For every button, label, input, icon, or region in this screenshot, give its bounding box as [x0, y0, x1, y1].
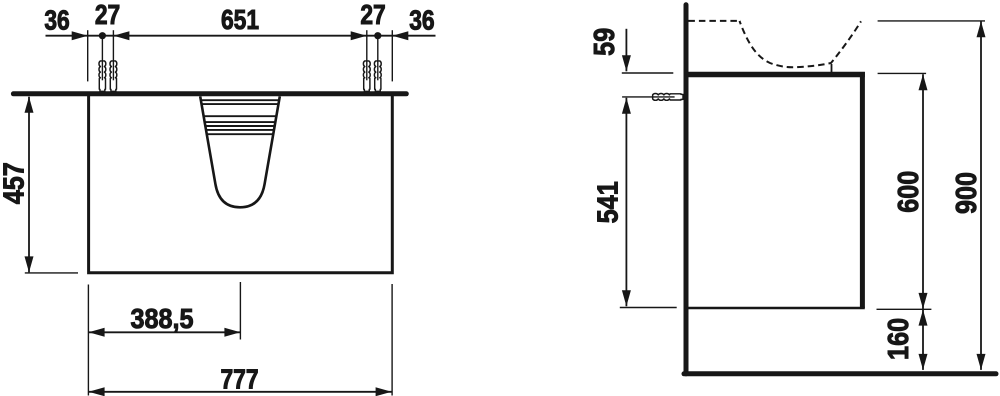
- arrow 651 left: [113, 31, 129, 40]
- dimension line 600: [922, 74, 924, 309]
- wall (side view): [684, 5, 689, 374]
- arrow 457 bottom: [25, 256, 34, 272]
- dimension line 541: [625, 98, 627, 307]
- dimension line 457: [28, 97, 30, 273]
- top dimension line: [46, 35, 436, 37]
- svg-text:651: 651: [221, 5, 259, 35]
- cabinet front panel: [89, 96, 393, 273]
- svg-text:36: 36: [409, 5, 434, 35]
- wall plug D5 axis: [622, 96, 675, 98]
- svg-text:541: 541: [591, 181, 624, 223]
- drill axis dowel 1: [101, 36, 103, 81]
- extension line basin centre: [239, 282, 241, 340]
- wall plug D5 (side view): [653, 93, 683, 100]
- washbasin cutout (front view): [200, 96, 280, 207]
- dimension line 900: [980, 21, 982, 370]
- wall plug D1: [99, 61, 106, 91]
- extension line cabinet right edge: [391, 30, 393, 81]
- drill axis dowel 3: [366, 30, 368, 80]
- wall plug D2: [110, 61, 117, 91]
- svg-text:777: 777: [220, 364, 258, 394]
- dimension line 777: [89, 391, 392, 393]
- extension line cabinet bottom left: [25, 272, 78, 274]
- wall plug D4: [374, 61, 381, 91]
- svg-text:900: 900: [949, 172, 982, 214]
- arrow 541 top: [622, 98, 631, 114]
- arrow 600 top: [919, 74, 928, 90]
- arrow 388,5 right: [224, 328, 240, 337]
- drain mark: [831, 64, 833, 72]
- extension line cabinet bottom (side view, left): [620, 307, 677, 309]
- svg-text:388,5: 388,5: [130, 303, 193, 335]
- dimension line 388,5: [89, 331, 241, 333]
- extension line cabinet bottom right: [877, 308, 932, 310]
- extension line cabinet top left: [622, 72, 674, 74]
- svg-text:27: 27: [95, 0, 120, 30]
- arrow 160 top: [919, 310, 928, 326]
- svg-text:600: 600: [891, 171, 924, 213]
- washbasin profile dashed: [740, 21, 862, 67]
- dimension line 160: [922, 310, 924, 370]
- extension line left lower: [87, 285, 89, 396]
- drill axis dowel 4: [377, 36, 379, 81]
- arrow 59 bottom: [622, 55, 631, 71]
- arrow 36 left: [72, 31, 88, 40]
- dimension line 59: [625, 29, 627, 72]
- arrow 777 left: [89, 387, 105, 396]
- svg-text:59: 59: [587, 28, 620, 56]
- arrow 541 bottom: [622, 290, 631, 306]
- countertop (front view): [13, 91, 406, 96]
- arrow 900 bottom: [977, 354, 986, 370]
- arrow 457 top: [25, 97, 34, 113]
- reference dot right: [374, 32, 381, 39]
- cabinet side: front edge: [860, 72, 865, 308]
- extension line cabinet left edge: [87, 30, 89, 81]
- svg-text:36: 36: [44, 5, 69, 35]
- svg-text:160: 160: [882, 318, 915, 360]
- extension line rim right: [878, 20, 985, 22]
- drill axis dowel 2: [112, 30, 114, 80]
- floor: [684, 371, 996, 376]
- reference dot left: [99, 32, 106, 39]
- extension line right lower: [391, 284, 393, 396]
- arrow 388,5 left: [89, 328, 105, 337]
- wall plug D3: [363, 61, 370, 91]
- arrow 900 top: [977, 21, 986, 37]
- cabinet side: top: [688, 72, 865, 77]
- basin overflow detail lines: [201, 100, 279, 134]
- arrow 36 right: [392, 31, 408, 40]
- extension line cabinet top right: [878, 72, 927, 74]
- cabinet side: bottom: [687, 307, 865, 310]
- arrow 600 bottom: [919, 293, 928, 309]
- arrow 777 right: [376, 387, 392, 396]
- svg-text:457: 457: [0, 162, 30, 204]
- svg-text:27: 27: [360, 0, 385, 30]
- arrow 651 right: [351, 31, 367, 40]
- washbasin rim dashed: [688, 20, 741, 22]
- arrow 160 bottom: [919, 354, 928, 370]
